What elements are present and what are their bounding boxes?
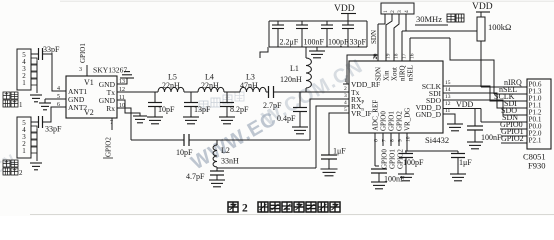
wire RXn line: [217, 167, 316, 169]
label J2 (antenna interface 2): [3, 160, 23, 177]
svg-text:VDD: VDD: [334, 4, 355, 14]
svg-text:4: 4: [57, 86, 60, 92]
svg-text:1μF: 1μF: [459, 158, 472, 167]
svg-text:Si4432: Si4432: [425, 135, 449, 145]
svg-text:20: 20: [373, 54, 379, 60]
wire GPIO1 stub: [389, 133, 397, 169]
svg-text:1: 1: [22, 79, 26, 87]
svg-text:2: 2: [242, 203, 248, 215]
pin names SKY13267 left: [68, 87, 87, 112]
label V2: [84, 108, 94, 117]
caption figure 2 (hardware design schematic): [228, 202, 340, 215]
svg-text:4: 4: [404, 10, 410, 13]
wire nIRQ net: [402, 31, 477, 61]
svg-text:100nF: 100nF: [481, 133, 502, 142]
svg-text:GPIO0: GPIO0: [381, 149, 389, 169]
svg-text:6: 6: [57, 102, 60, 108]
svg-text:SDN: SDN: [370, 30, 378, 44]
MCU U3 C8051F930 body: [527, 79, 551, 149]
svg-text:2: 2: [390, 10, 396, 13]
capacitor 1uF (VR_IF): [321, 147, 346, 170]
label 30MHz crystal: [415, 14, 464, 25]
wire Rx lower line: [131, 139, 184, 141]
wire cap bank left tap: [260, 47, 268, 58]
pin names SKY13267 right: [99, 80, 116, 113]
capacitor 100nF (VDD bank): [296, 21, 325, 47]
pin numbers Si4432 right: [445, 80, 451, 114]
capacitor 100nF (ADC_REF): [371, 133, 405, 184]
wire J1 pin5 to C1: [31, 53, 39, 55]
svg-text:8.2pF: 8.2pF: [230, 105, 249, 114]
ground (8.2pF): [219, 117, 235, 124]
wire C2 to ANT2: [43, 107, 67, 122]
pin numbers Si4432 left: [344, 78, 347, 113]
svg-text:1: 1: [383, 10, 389, 13]
VDD rail capacitor bank frame: [269, 21, 367, 47]
capacitor 2.2μF (VDD bank): [272, 21, 299, 47]
capacitor shunt 8.2pF: [220, 92, 249, 117]
svg-text:Xout: Xout: [391, 67, 399, 81]
wire Rx to lower path: [117, 108, 131, 140]
svg-text:L1: L1: [290, 64, 299, 73]
wire VDD_RF feed: [347, 55, 378, 84]
wire crystal pin2 to Xin: [386, 14, 392, 61]
wire RXp riser: [310, 99, 343, 140]
svg-text:0.4pF: 0.4pF: [277, 114, 296, 123]
svg-text:GPIO1: GPIO1: [389, 149, 397, 169]
svg-text:15: 15: [445, 80, 451, 86]
ground (VDD_D cap): [467, 142, 483, 149]
svg-text:8: 8: [390, 139, 396, 142]
wire GPIO0 to MCU: [500, 120, 527, 129]
capacitor 0.4pF (shunt): [277, 92, 307, 127]
pin names Si4432 bottom (rotated): [372, 100, 412, 131]
wire GPIO2 stub: [397, 133, 405, 169]
wire VDD_D net: [443, 100, 481, 109]
pin 5 GND stub + ground: [39, 99, 66, 110]
resistor R1 100kΩ: [477, 17, 511, 41]
connector J2 (antenna interface 2): [17, 117, 31, 158]
pin 7 GPIO2 stub (bottom): [103, 118, 113, 158]
capacitor shunt 10pF: [148, 92, 175, 117]
transceiver U2 Si4432 body: [349, 61, 443, 133]
svg-text:VDD: VDD: [472, 2, 493, 12]
connector J1 (antenna interface 1): [17, 49, 31, 90]
wire J2 pin5 to C2: [31, 121, 39, 123]
ground (1uF): [450, 174, 466, 181]
capacitor 100pF (VR_DG): [399, 151, 424, 174]
capacitor C2 33pF (J2 feed): [39, 116, 63, 134]
pin stubs Si4432 left: [343, 84, 349, 113]
wire: [224, 91, 240, 93]
capacitor C1 33pF (J1 feed): [39, 45, 61, 60]
capacitor 4.7pF (to ground): [186, 168, 224, 181]
svg-text:3: 3: [397, 10, 403, 13]
svg-text:30MHz: 30MHz: [416, 14, 442, 24]
svg-text:SKY13267: SKY13267: [93, 66, 127, 75]
wire: [266, 91, 268, 93]
svg-text:100pF: 100pF: [403, 158, 424, 167]
svg-text:GND_D: GND_D: [416, 110, 442, 119]
wire GPIO1 to MCU: [501, 127, 527, 136]
capacitor 33pF (VDD bank): [342, 21, 367, 47]
svg-text:22nH: 22nH: [162, 81, 180, 90]
RF switch U1 SKY13267 body: [66, 76, 117, 118]
pin 3 GPIO1 stub (top): [79, 43, 87, 76]
svg-text:GPIO1: GPIO1: [79, 43, 87, 63]
svg-text:3: 3: [79, 67, 82, 73]
wire J1 pins bus: [36, 61, 38, 93]
ground (13pF): [183, 117, 199, 124]
svg-text:33pF: 33pF: [350, 38, 367, 47]
svg-text:F930: F930: [528, 161, 545, 171]
svg-text:6: 6: [374, 139, 380, 142]
ground (100pF): [398, 174, 414, 181]
ground (GND_D): [447, 124, 463, 131]
pin numbers Si4432 bottom: [374, 136, 412, 142]
svg-text:2.2μF: 2.2μF: [280, 38, 299, 47]
wire VR_IF to C: [329, 113, 343, 155]
svg-text:1μF: 1μF: [333, 147, 346, 156]
wire SDO: [443, 100, 527, 115]
wire RXn riser: [316, 106, 343, 168]
inductor L4 22nH: [198, 73, 224, 93]
capacitor 2.7pF (series): [263, 86, 282, 110]
VDD symbol (pull-up): [472, 2, 493, 17]
svg-text:120nH: 120nH: [280, 75, 302, 84]
J2 pin contact squares: [31, 126, 37, 153]
J1 pin contact squares: [31, 58, 37, 85]
label J1 (antenna interface 1): [3, 92, 23, 109]
svg-text:33nH: 33nH: [221, 157, 239, 166]
capacitor 1uF (VR_DG): [451, 151, 472, 174]
svg-text:13pF: 13pF: [194, 105, 211, 114]
svg-text:12: 12: [445, 101, 451, 107]
pin numbers Si4432 top: [373, 53, 416, 59]
wire nSEL to MCU: [494, 85, 527, 94]
wire GPIO2 to MCU: [501, 134, 527, 143]
wire R1 to nIRQ: [480, 41, 482, 87]
node SDN pin20 number: [373, 54, 379, 60]
svg-text:100kΩ: 100kΩ: [488, 22, 511, 32]
svg-text:VDD: VDD: [456, 100, 474, 109]
capacitor 10pF (series RX): [176, 134, 193, 157]
svg-text:100nF: 100nF: [384, 175, 405, 184]
svg-text:GPIO2: GPIO2: [105, 137, 113, 157]
svg-text:GPIO2: GPIO2: [501, 134, 524, 143]
VDD symbol (cap bank): [334, 4, 356, 21]
inductor L1 120nH (choke): [280, 47, 311, 92]
svg-text:10: 10: [406, 136, 412, 142]
wire crystal pin1 to SDN: [378, 14, 385, 24]
crystal Y1 30MHz body: [381, 3, 414, 14]
wire VR_DG: [405, 133, 458, 151]
svg-text:7: 7: [110, 120, 113, 126]
svg-text:10pF: 10pF: [158, 105, 175, 114]
pin 11 GND wire: [117, 100, 140, 116]
ground (VR_IF cap): [321, 169, 338, 176]
svg-text:22nH: 22nH: [201, 81, 219, 90]
wire: [189, 139, 310, 141]
pin names MCU: [529, 81, 542, 145]
label V1: [84, 78, 94, 87]
svg-text:2: 2: [344, 86, 347, 92]
pin names Si4432 left: [351, 80, 380, 118]
svg-text:33pF: 33pF: [43, 45, 60, 54]
svg-text:GPIO1: GPIO1: [388, 111, 396, 131]
svg-text:5: 5: [344, 107, 347, 113]
pin names Si4432 right: [416, 82, 442, 119]
capacitor 100nF (VDD_D): [467, 109, 502, 143]
label C8051 F930: [523, 152, 546, 171]
ground J1: [30, 95, 42, 102]
label SKY13267: [93, 66, 127, 75]
ground (SKY pin 11): [133, 116, 147, 123]
svg-text:2: 2: [19, 169, 23, 177]
label Si4432: [425, 135, 449, 145]
wire SDN net: [370, 24, 378, 61]
inductor L2 33nH: [213, 140, 239, 168]
wire nIRQ to MCU: [481, 78, 527, 87]
inductor L5 22nH: [158, 73, 184, 93]
wire SDI: [443, 93, 527, 108]
svg-text:VR_DG: VR_DG: [404, 108, 412, 131]
wire SDN to MCU: [481, 109, 527, 123]
svg-text:V1: V1: [84, 78, 94, 87]
svg-text:3: 3: [344, 93, 347, 99]
wire J2 pins bus: [36, 129, 38, 161]
ground (0.4pF): [292, 127, 308, 134]
svg-text:1: 1: [19, 101, 23, 109]
wire Tx line: [117, 91, 158, 93]
svg-text:2.7pF: 2.7pF: [263, 101, 282, 110]
svg-text:100nF: 100nF: [304, 38, 325, 47]
svg-text:100pF: 100pF: [328, 38, 349, 47]
pin 13 GND stub + ground (up): [117, 72, 134, 84]
svg-text:Rx: Rx: [106, 104, 115, 113]
svg-text:33pF: 33pF: [45, 125, 62, 134]
svg-text:nSEL: nSEL: [407, 65, 415, 81]
svg-text:VR_IF: VR_IF: [351, 109, 372, 118]
svg-text:L2: L2: [221, 146, 230, 155]
ground J2: [30, 163, 42, 170]
ground (10pF): [147, 117, 163, 124]
pin names Si4432 top (rotated): [375, 65, 415, 81]
ground (4.7pF): [209, 180, 225, 187]
svg-text:13: 13: [445, 94, 451, 100]
svg-text:1: 1: [22, 147, 26, 155]
svg-text:14: 14: [445, 87, 451, 93]
svg-text:47nH: 47nH: [240, 81, 258, 90]
wire nSEL net: [410, 38, 494, 94]
wire crystal pin3 to Xout: [394, 14, 399, 61]
svg-text:GPIO0: GPIO0: [380, 111, 388, 131]
svg-text:7: 7: [382, 139, 388, 142]
wire C1 to ANT1: [43, 54, 67, 91]
pin numbers SKY13267 right: [119, 79, 125, 109]
svg-text:10pF: 10pF: [176, 148, 193, 157]
svg-text:SDN: SDN: [375, 67, 383, 81]
wire GND_D: [443, 114, 455, 124]
svg-text:ANT2: ANT2: [68, 103, 87, 112]
ground (ADC_REF cap): [371, 182, 387, 189]
inductor L3 47nH: [240, 73, 266, 93]
capacitor shunt 13pF: [184, 92, 211, 117]
svg-text:nIRQ: nIRQ: [399, 65, 407, 81]
pin numbers SKY13267 left: [57, 86, 60, 108]
svg-text:P2.1: P2.1: [529, 137, 542, 145]
wire: [274, 91, 344, 93]
svg-text:ADC_REF: ADC_REF: [372, 100, 380, 131]
wire GPIO0 stub: [381, 133, 389, 169]
wire crystal pin4 to nIRQ net: [405, 14, 407, 31]
wire: [184, 91, 198, 93]
svg-text:Xin: Xin: [383, 70, 391, 81]
wire SCLK: [443, 86, 527, 101]
svg-text:4: 4: [344, 100, 347, 106]
svg-text:4.7pF: 4.7pF: [186, 172, 205, 181]
svg-text:GPIO2: GPIO2: [396, 111, 404, 131]
svg-text:9: 9: [398, 139, 404, 142]
capacitor 100pF (VDD bank): [321, 21, 349, 47]
ground (cap bank): [309, 47, 325, 58]
